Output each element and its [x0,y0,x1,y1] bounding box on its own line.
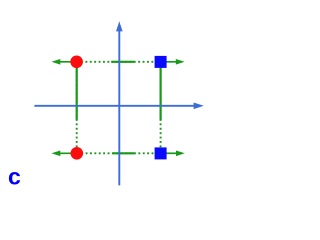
dotted square top edge [77,61,161,63]
y axis [116,21,123,185]
arrow left from top-left marker [52,59,77,65]
arrow left from bottom-left marker [52,151,77,157]
solid upper part of right edge [160,62,162,120]
solid upper part of left edge [76,62,78,120]
x axis [34,103,203,110]
solid segment on top edge across y axis [111,61,134,63]
dotted square left edge [76,62,78,154]
arrow right from bottom-right marker [161,151,185,157]
top-left red circle marker [70,56,83,69]
svg-text:c: c [8,164,21,190]
solid segment on bottom edge across y axis [113,152,135,154]
bottom-left red circle marker [71,147,84,160]
top-right blue square marker [155,56,167,68]
dotted square bottom edge [77,152,161,154]
dotted square right edge [160,62,162,154]
bottom-right blue square marker [155,147,167,159]
arrow right from top-right marker [161,59,185,65]
